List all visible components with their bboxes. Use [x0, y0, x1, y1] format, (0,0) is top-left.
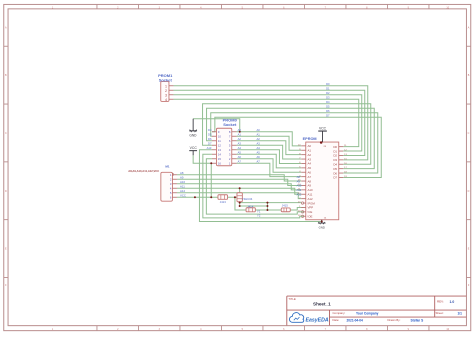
svg-text:14: 14 — [218, 153, 222, 157]
svg-text:A8: A8 — [307, 179, 311, 183]
svg-text:D2: D2 — [326, 91, 330, 95]
svg-text:VPP: VPP — [307, 206, 313, 210]
svg-text:Sheet:: Sheet: — [436, 311, 444, 315]
svg-text:D0: D0 — [326, 82, 330, 86]
svg-text:Stefan S: Stefan S — [411, 318, 424, 322]
svg-text:A0: A0 — [238, 128, 242, 132]
svg-text:!OE: !OE — [307, 214, 312, 218]
svg-text:REV:: REV: — [437, 300, 444, 304]
svg-text:A9: A9 — [297, 179, 301, 183]
svg-text:VCC: VCC — [190, 146, 198, 150]
svg-text:!PGM: !PGM — [307, 201, 315, 205]
svg-text:D6: D6 — [326, 109, 330, 113]
svg-text:D1: D1 — [326, 86, 330, 90]
svg-text:A7: A7 — [256, 160, 260, 164]
svg-text:A0: A0 — [307, 144, 311, 148]
svg-text:J414: J414 — [247, 204, 254, 208]
svg-text:A2: A2 — [256, 137, 260, 141]
svg-text:D3: D3 — [326, 95, 330, 99]
svg-text:J415: J415 — [282, 203, 289, 207]
svg-text:D7: D7 — [333, 176, 337, 180]
svg-text:D3: D3 — [333, 158, 337, 162]
svg-text:A7: A7 — [238, 160, 242, 164]
svg-text:A6: A6 — [238, 155, 242, 159]
svg-text:A6: A6 — [307, 170, 311, 174]
svg-text:A5: A5 — [238, 151, 242, 155]
svg-text:A3: A3 — [307, 157, 311, 161]
svg-text:A10: A10 — [297, 184, 302, 188]
svg-text:TITLE:: TITLE: — [289, 297, 297, 301]
svg-text:D2: D2 — [333, 154, 337, 158]
svg-text:Date:: Date: — [333, 318, 340, 322]
svg-text:A10: A10 — [180, 180, 185, 184]
svg-text:D5: D5 — [208, 133, 212, 137]
svg-text:13: 13 — [218, 148, 222, 152]
svg-text:J413: J413 — [220, 200, 227, 204]
svg-text:GND: GND — [189, 134, 197, 138]
svg-text:Your Company: Your Company — [356, 311, 379, 315]
svg-text:D7: D7 — [208, 142, 212, 146]
svg-text:D: D — [5, 190, 7, 193]
svg-text:74HC04: 74HC04 — [242, 197, 253, 201]
svg-text:C: C — [5, 132, 7, 135]
svg-text:Y2: Y2 — [257, 213, 261, 217]
svg-text:A9: A9 — [307, 184, 311, 188]
svg-text:A1: A1 — [256, 133, 260, 137]
svg-text:Socket: Socket — [159, 78, 173, 83]
svg-text:12: 12 — [218, 144, 222, 148]
svg-text:D4: D4 — [333, 162, 337, 166]
svg-text:A2: A2 — [238, 137, 242, 141]
svg-text:VCC: VCC — [319, 126, 327, 130]
svg-text:A4: A4 — [238, 146, 242, 150]
svg-text:Socket: Socket — [223, 122, 237, 127]
svg-text:C: C — [468, 132, 470, 135]
svg-text:A5: A5 — [307, 166, 311, 170]
svg-text:Y1: Y1 — [257, 209, 261, 213]
svg-text:A6: A6 — [256, 155, 260, 159]
svg-text:A4: A4 — [307, 162, 311, 166]
svg-text:D7: D7 — [326, 113, 330, 117]
svg-text:A8,A9,A10,A11,A12,VCC: A8,A9,A10,A11,A12,VCC — [128, 169, 159, 173]
svg-text:D1: D1 — [333, 149, 337, 153]
svg-text:M1: M1 — [165, 165, 169, 169]
svg-text:A1: A1 — [307, 148, 311, 152]
svg-text:A10: A10 — [307, 188, 313, 192]
svg-text:11: 11 — [218, 139, 221, 143]
svg-text:D0: D0 — [333, 145, 337, 149]
svg-text:D5: D5 — [333, 167, 337, 171]
svg-text:A4: A4 — [256, 146, 260, 150]
svg-text:A8: A8 — [297, 175, 301, 179]
svg-text:D4: D4 — [326, 100, 330, 104]
svg-text:D4: D4 — [208, 128, 212, 132]
svg-text:A12: A12 — [307, 197, 313, 201]
svg-text:1: 1 — [165, 84, 167, 88]
svg-text:A12: A12 — [297, 192, 302, 196]
svg-text:1/1: 1/1 — [458, 311, 463, 315]
svg-text:A11: A11 — [297, 188, 302, 192]
svg-text:A3: A3 — [238, 142, 242, 146]
svg-text:D5: D5 — [326, 104, 330, 108]
svg-text:A9: A9 — [180, 176, 184, 180]
svg-text:A3: A3 — [256, 142, 260, 146]
svg-text:3: 3 — [165, 93, 167, 97]
svg-text:D: D — [468, 190, 470, 193]
svg-text:A12: A12 — [180, 189, 185, 193]
svg-text:D6: D6 — [208, 137, 212, 141]
svg-text:A11: A11 — [180, 185, 185, 189]
svg-text:A0: A0 — [256, 128, 260, 132]
svg-text:A5: A5 — [256, 151, 260, 155]
svg-text:A8: A8 — [180, 171, 184, 175]
svg-text:EPROM: EPROM — [303, 137, 317, 141]
svg-text:Company:: Company: — [333, 311, 346, 315]
svg-text:A1: A1 — [238, 133, 242, 137]
svg-text:15: 15 — [218, 157, 222, 161]
svg-text:2: 2 — [165, 89, 167, 93]
svg-text:A13: A13 — [207, 146, 212, 150]
svg-text:VCC: VCC — [180, 194, 186, 198]
svg-text:A11: A11 — [307, 192, 312, 196]
svg-text:GND: GND — [319, 225, 325, 229]
svg-text:Sheet_1: Sheet_1 — [313, 301, 331, 306]
svg-text:A2: A2 — [307, 153, 311, 157]
svg-text:2021-04-04: 2021-04-04 — [347, 318, 364, 322]
svg-text:A7: A7 — [307, 175, 311, 179]
svg-text:16: 16 — [218, 162, 222, 166]
svg-text:10: 10 — [218, 135, 222, 139]
svg-text:Drawn By:: Drawn By: — [388, 318, 401, 322]
svg-text:D6: D6 — [333, 171, 337, 175]
svg-text:!CE: !CE — [307, 210, 312, 214]
svg-text:EasyEDA: EasyEDA — [306, 317, 329, 323]
svg-text:4: 4 — [165, 98, 167, 102]
svg-text:1.0: 1.0 — [450, 300, 455, 304]
